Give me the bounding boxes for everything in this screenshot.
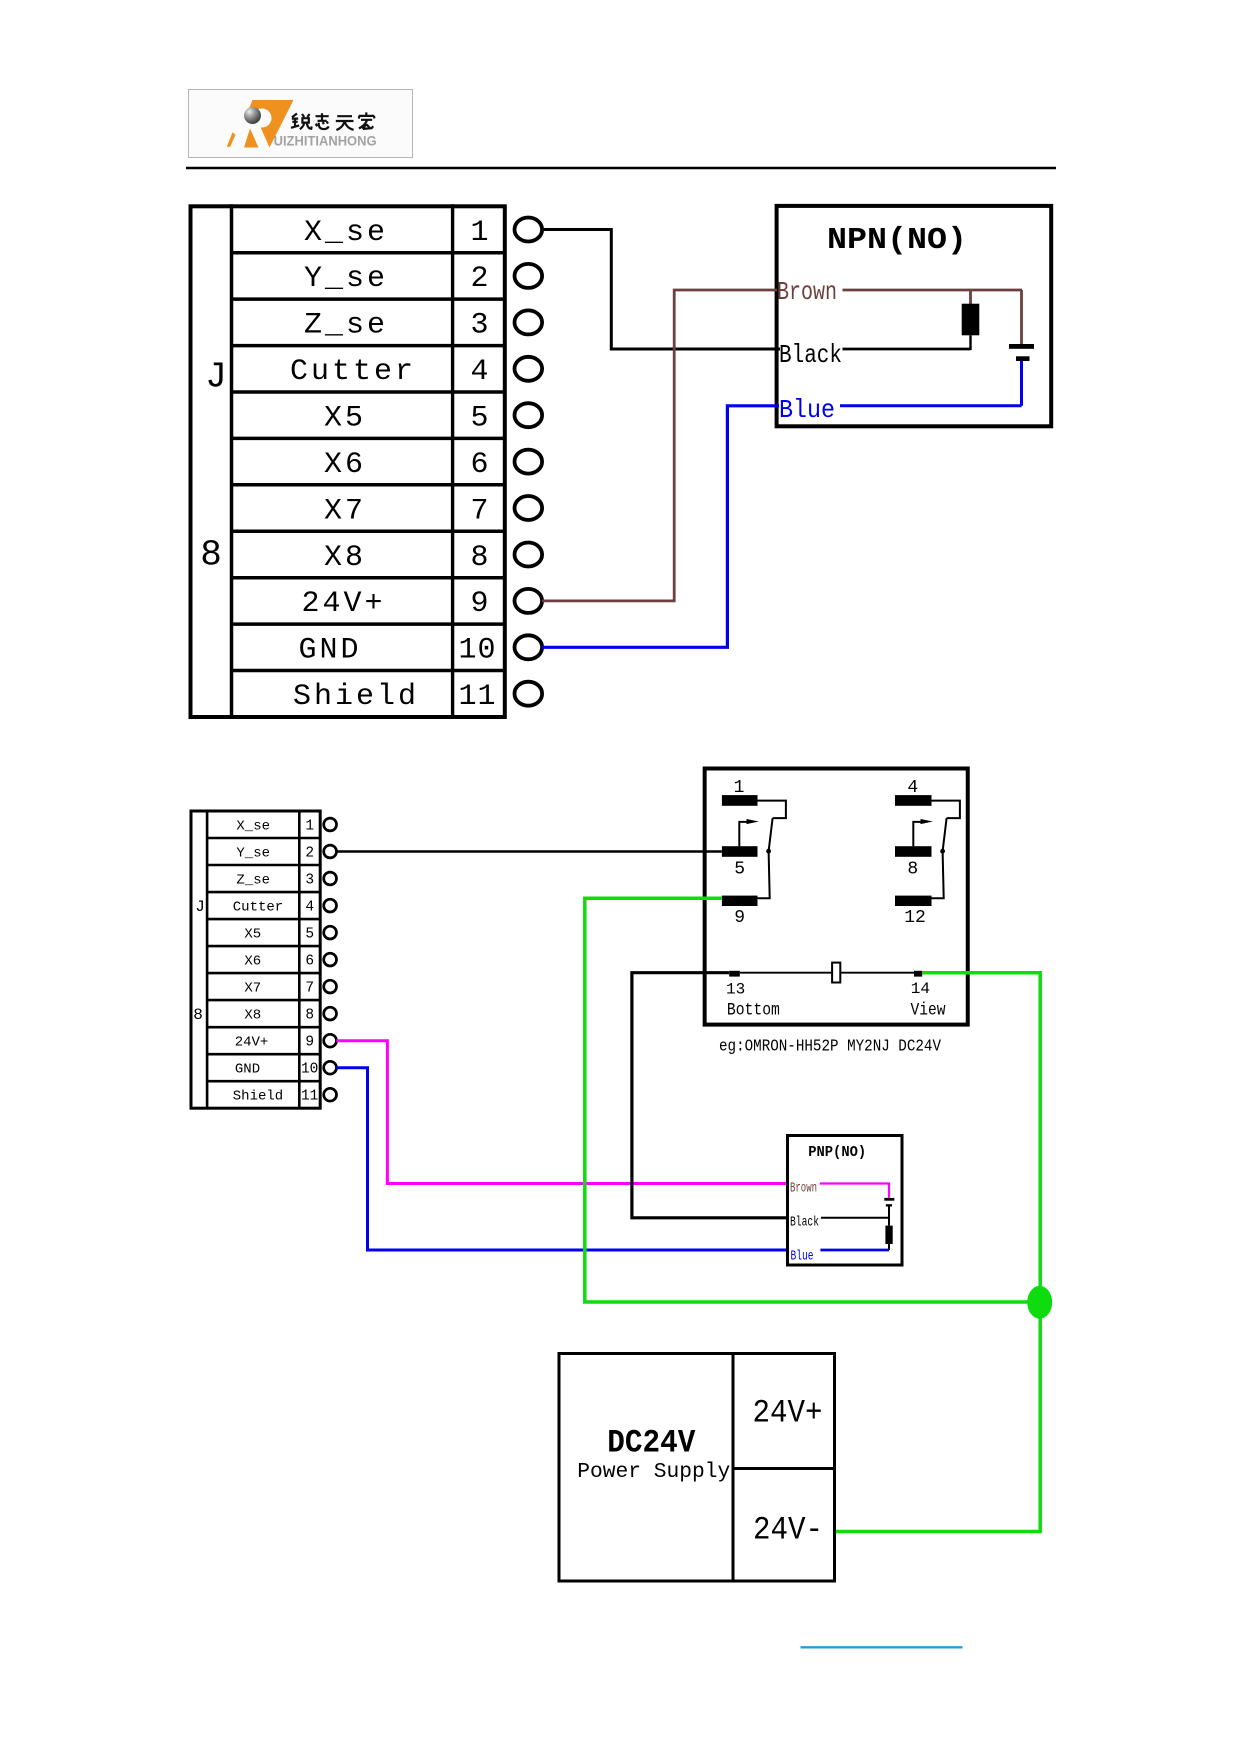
svg-text:X7: X7 <box>244 981 261 997</box>
svg-text:11: 11 <box>458 680 496 714</box>
svg-text:J: J <box>205 357 227 398</box>
svg-text:1: 1 <box>734 778 745 798</box>
NPN output element <box>962 304 980 336</box>
svg-text:Black: Black <box>779 340 842 370</box>
power supply divider vertical <box>732 1352 735 1583</box>
svg-text:2: 2 <box>470 262 489 296</box>
connector J8 table bottom <box>191 810 320 1109</box>
svg-text:5: 5 <box>734 860 745 880</box>
relay pin bar 12 <box>895 896 932 906</box>
svg-text:Blue: Blue <box>779 395 835 425</box>
svg-text:14: 14 <box>911 980 930 998</box>
svg-text:Shield: Shield <box>293 680 419 714</box>
pin numbers J8 bottom <box>301 819 318 1105</box>
svg-text:Y_se: Y_se <box>236 846 270 862</box>
relay pin 14 pad <box>914 971 922 977</box>
svg-text:8: 8 <box>470 541 489 575</box>
svg-text:8: 8 <box>200 535 222 576</box>
NPN brown internal wire <box>843 289 1023 292</box>
NPN sensor box <box>777 206 1052 426</box>
NPN output stub <box>969 335 971 350</box>
svg-text:X_se: X_se <box>236 819 270 835</box>
relay coil <box>832 963 840 983</box>
svg-text:X5: X5 <box>244 927 261 943</box>
relay arrow left <box>739 819 759 846</box>
wire green relay pin14 to 24V- <box>836 973 1040 1532</box>
NPN brown tap to output <box>969 290 972 304</box>
svg-text:2: 2 <box>305 846 314 862</box>
row labels J8 bottom <box>233 819 283 1105</box>
svg-text:Black: Black <box>790 1215 819 1231</box>
svg-text:GND: GND <box>298 634 361 668</box>
svg-text:3: 3 <box>470 309 489 343</box>
svg-text:1: 1 <box>470 216 489 250</box>
svg-text:4: 4 <box>305 900 314 916</box>
svg-text:5: 5 <box>470 402 489 436</box>
relay pin bar 5 <box>722 846 758 857</box>
svg-text:6: 6 <box>470 448 489 482</box>
logo box <box>189 90 413 158</box>
svg-text:24V+: 24V+ <box>301 587 385 621</box>
svg-text:3: 3 <box>305 873 314 889</box>
PNP magenta internal wire <box>820 1184 889 1198</box>
relay pin bar 4 <box>895 795 932 806</box>
svg-text:X_se: X_se <box>304 216 388 250</box>
svg-text:Cutter: Cutter <box>290 355 416 389</box>
relay pin bar 1 <box>722 795 758 806</box>
svg-text:Brown: Brown <box>777 277 837 307</box>
relay pin bar 9 <box>722 896 758 906</box>
wire black pin2 to relay bar5 <box>337 850 722 853</box>
wire blue pin10 to NPN <box>542 406 779 648</box>
svg-text:11: 11 <box>301 1089 318 1105</box>
relay contact dot right <box>940 849 945 854</box>
PNP battery stub <box>888 1207 890 1226</box>
logo Chinese text 锐志天宏 <box>291 112 374 130</box>
svg-text:12: 12 <box>904 908 926 928</box>
svg-text:9: 9 <box>305 1035 314 1051</box>
svg-text:Z_se: Z_se <box>236 873 270 889</box>
power supply box <box>559 1354 835 1582</box>
svg-text:X8: X8 <box>324 541 366 575</box>
svg-text:10: 10 <box>458 634 496 668</box>
svg-text:7: 7 <box>305 981 314 997</box>
relay pin bar 8 <box>895 846 932 857</box>
NPN black internal wire <box>843 348 971 351</box>
pin numbers J8 top <box>458 216 496 714</box>
wire blue pin10 to PNP blue <box>337 1068 788 1250</box>
NPN battery symbol <box>1009 344 1034 361</box>
header rule <box>186 167 1056 170</box>
connector J8 table top <box>191 204 505 717</box>
svg-text:24V-: 24V- <box>753 1512 823 1549</box>
power supply divider horizontal <box>733 1467 836 1470</box>
svg-text:1: 1 <box>305 819 314 835</box>
wire magenta pin9 to PNP brown <box>337 1041 788 1184</box>
wire black pin1 to NPN <box>542 230 780 350</box>
svg-text:X6: X6 <box>324 448 366 482</box>
svg-text:7: 7 <box>470 494 489 528</box>
NPN brown wire to battery <box>1020 290 1023 344</box>
svg-text:24V+: 24V+ <box>235 1035 269 1051</box>
svg-text:GND: GND <box>235 1062 260 1078</box>
NPN blue wire from battery <box>1020 361 1023 406</box>
svg-text:8: 8 <box>193 1006 203 1024</box>
PNP battery symbol <box>884 1198 894 1207</box>
svg-text:9: 9 <box>470 587 489 621</box>
PNP output stub <box>888 1244 890 1250</box>
svg-text:J: J <box>195 898 205 916</box>
wire brown pin9 to NPN <box>542 290 777 601</box>
svg-text:Power Supply: Power Supply <box>577 1461 730 1484</box>
svg-text:Cutter: Cutter <box>233 900 283 916</box>
svg-text:View: View <box>911 1001 946 1021</box>
green junction node <box>1027 1286 1052 1319</box>
svg-text:4: 4 <box>907 778 918 798</box>
svg-text:X5: X5 <box>324 402 366 436</box>
footer underline <box>801 1646 963 1648</box>
svg-text:24V+: 24V+ <box>753 1395 823 1432</box>
relay contact dot left <box>766 849 771 854</box>
PNP output element <box>885 1226 892 1244</box>
row labels J8 top <box>290 216 419 714</box>
relay arrow right <box>913 819 933 846</box>
PNP sensor box <box>788 1136 903 1266</box>
svg-text:9: 9 <box>734 908 745 928</box>
svg-text:NPN(NO): NPN(NO) <box>827 223 967 258</box>
svg-text:4: 4 <box>470 355 489 389</box>
svg-text:Y_se: Y_se <box>304 262 388 296</box>
PNP black internal wire <box>821 1217 889 1219</box>
svg-text:Shield: Shield <box>233 1089 283 1105</box>
relay box <box>705 769 968 1025</box>
svg-text:8: 8 <box>305 1008 314 1024</box>
wire green relay bar9 to junction <box>585 898 1040 1302</box>
svg-text:DC24V: DC24V <box>607 1425 696 1462</box>
relay pin 13 pad <box>729 971 740 977</box>
svg-text:8: 8 <box>907 860 918 880</box>
wire black relay pin13 to PNP black <box>632 973 787 1218</box>
pin circles J8 top <box>515 218 543 706</box>
svg-text:eg:OMRON-HH52P MY2NJ DC24V: eg:OMRON-HH52P MY2NJ DC24V <box>719 1037 942 1056</box>
svg-text:Blue: Blue <box>791 1249 814 1265</box>
svg-text:10: 10 <box>301 1062 318 1078</box>
relay coil wire <box>740 972 914 974</box>
svg-text:Bottom: Bottom <box>727 1001 780 1021</box>
svg-text:X8: X8 <box>244 1008 261 1024</box>
relay switch arm left <box>758 801 786 899</box>
svg-text:X7: X7 <box>324 494 366 528</box>
NPN blue internal wire <box>840 404 1022 407</box>
relay switch arm right <box>932 801 960 899</box>
svg-text:13: 13 <box>726 980 745 998</box>
svg-text:UIZHITIANHONG: UIZHITIANHONG <box>274 133 377 149</box>
PNP blue internal wire <box>820 1249 889 1252</box>
logo mark R <box>227 100 294 148</box>
svg-text:Brown: Brown <box>790 1181 817 1197</box>
svg-text:Z_se: Z_se <box>304 309 388 343</box>
svg-text:5: 5 <box>305 927 314 943</box>
svg-text:X6: X6 <box>244 954 261 970</box>
svg-text:PNP(NO): PNP(NO) <box>808 1145 866 1161</box>
svg-text:6: 6 <box>305 954 314 970</box>
pin circles J8 bottom <box>324 818 337 1101</box>
